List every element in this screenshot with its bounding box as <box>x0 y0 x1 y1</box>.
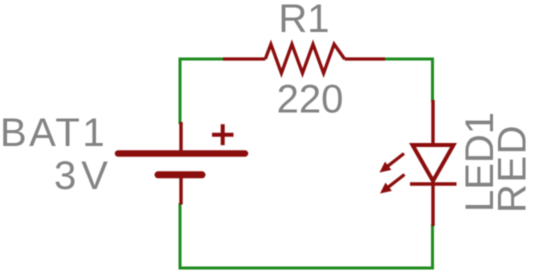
svg-text:3V: 3V <box>54 154 113 198</box>
wire bottom (green) <box>179 267 435 270</box>
LED light arrow 2 <box>380 175 405 194</box>
svg-text:R1: R1 <box>278 0 329 41</box>
svg-text:RED: RED <box>491 124 535 213</box>
battery plus sign <box>212 124 234 145</box>
LED light arrow 1 <box>380 154 405 173</box>
battery BAT1 <box>118 122 245 205</box>
svg-text:220: 220 <box>277 78 344 122</box>
wire top-right (green) <box>383 58 434 61</box>
resistor R1 <box>223 44 385 73</box>
LED LED1 <box>410 100 457 226</box>
wire right-upper (green) <box>431 58 434 103</box>
wire top-left (green) <box>179 58 227 61</box>
svg-text:BAT1: BAT1 <box>0 111 107 155</box>
wire left-upper (green) <box>179 58 182 125</box>
wire right-lower (green) <box>431 224 434 270</box>
wire left-lower (green) <box>179 203 182 270</box>
